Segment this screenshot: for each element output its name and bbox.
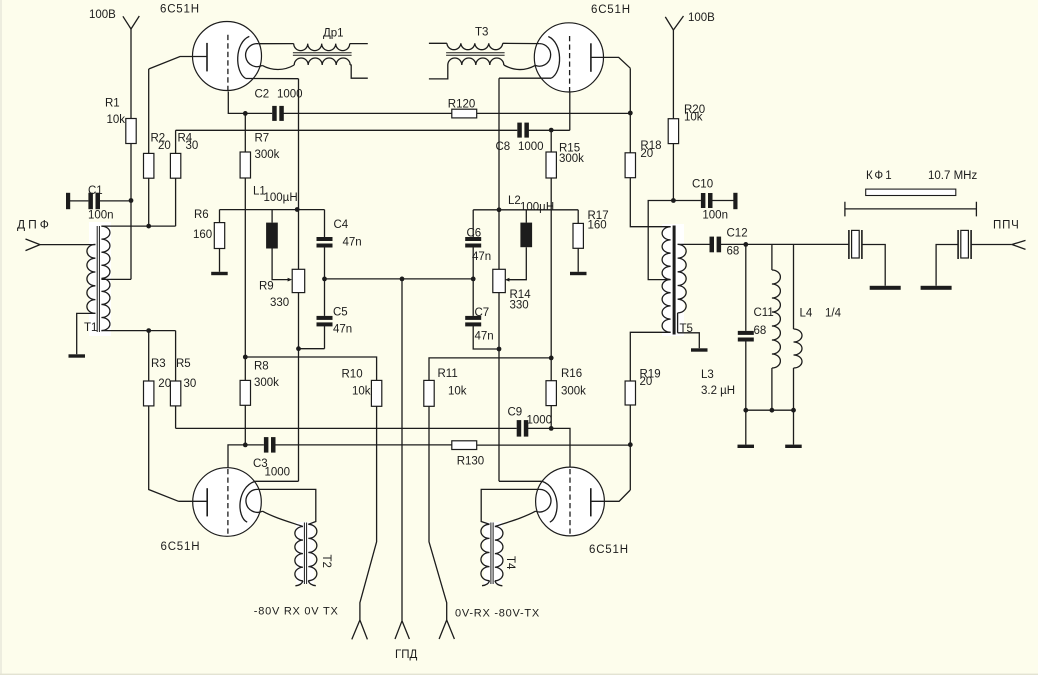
- svg-text:0V-RX -80V-TX: 0V-RX -80V-TX: [455, 608, 540, 620]
- inductor L3: [772, 270, 781, 368]
- capacitor C1 terminal bar: [66, 193, 70, 209]
- ground T1 ground: [69, 354, 86, 357]
- svg-text:R8: R8: [254, 361, 269, 373]
- node U2 anode / R18 node: [628, 111, 633, 116]
- resistor R3: [144, 381, 154, 406]
- wire U4 heater top lead: [481, 489, 539, 524]
- resistor R9: [292, 269, 305, 292]
- wire Др1 bottom-right lead: [350, 65, 368, 78]
- capacitor C1: [88, 193, 100, 210]
- svg-text:47n: 47n: [333, 323, 352, 335]
- wire cathode column upper left: [298, 79, 300, 270]
- svg-text:T1: T1: [84, 322, 97, 334]
- svg-text:C10: C10: [692, 179, 713, 191]
- capacitor C3: [264, 437, 276, 453]
- wire R17 bottom lead: [577, 248, 579, 271]
- svg-text:C9: C9: [508, 407, 523, 419]
- node GPD node: [400, 277, 405, 282]
- wire GPD right (from R11): [429, 406, 447, 620]
- node C8 / R15 node: [549, 128, 554, 133]
- wire R16 bottom: [550, 406, 552, 429]
- wire R9-C5 link: [299, 348, 325, 350]
- wire T1 secondary bottom line: [101, 330, 175, 332]
- svg-text:-80V RX 0V TX: -80V RX 0V TX: [254, 606, 339, 618]
- wire U1 anode column: [148, 69, 150, 153]
- tube U3 grid (dashed): [227, 469, 229, 536]
- capacitor C7: [465, 316, 481, 327]
- capacitor C2: [272, 106, 284, 121]
- wire C12 to crystal line: [721, 243, 849, 245]
- svg-text:R9: R9: [259, 281, 274, 293]
- wire U1 cathode lead: [246, 78, 299, 80]
- svg-text:10k: 10k: [352, 385, 371, 397]
- tube U2 anode bar: [590, 43, 592, 72]
- svg-text:300k: 300k: [561, 386, 586, 398]
- wire U2 anode to R18 to T5 top: [630, 68, 670, 227]
- svg-text:160: 160: [193, 229, 212, 241]
- node filter gnd node b: [770, 408, 775, 413]
- svg-text:R11: R11: [438, 368, 458, 380]
- node R3/T1 node: [146, 328, 151, 333]
- transformer T4 white band: [484, 522, 502, 584]
- wire cathode column upper right: [498, 78, 500, 269]
- wire C1 left: [70, 200, 89, 202]
- svg-text:C11: C11: [754, 307, 774, 319]
- node tank mid left: [322, 277, 327, 282]
- svg-text:R3: R3: [151, 358, 166, 370]
- GPD left fork: [352, 620, 368, 639]
- wire T3 top-right lead to U2 heater: [503, 42, 540, 44]
- svg-text:C2: C2: [255, 88, 270, 100]
- wire T3 bottom-left lead: [429, 65, 448, 79]
- R14 wiper arrow: [505, 278, 510, 282]
- wire left tank node line: [220, 209, 325, 211]
- tube U4 6С51Н envelope: [536, 467, 605, 536]
- wire L3 top lead: [771, 244, 773, 270]
- wire T5 right winding tail: [677, 313, 679, 333]
- wire grid bus upper: [176, 129, 518, 131]
- svg-text:20: 20: [640, 148, 653, 160]
- node R8/C3 node: [243, 443, 248, 448]
- crystal X2: [958, 230, 971, 259]
- wire C11 column: [745, 244, 747, 444]
- resistor R2: [144, 153, 154, 178]
- svg-text:20: 20: [158, 140, 171, 152]
- svg-text:3.2 µH: 3.2 µH: [701, 385, 735, 397]
- wire U3 cathode lead: [255, 480, 298, 482]
- transformer T3 bottom winding: [448, 58, 504, 65]
- svg-text:47n: 47n: [475, 331, 494, 343]
- transformer T3 core: [446, 53, 505, 55]
- wire L4 bottom lead: [793, 368, 795, 445]
- wire C10 left: [673, 200, 701, 202]
- svg-text:68: 68: [727, 246, 740, 258]
- wire L4 top lead: [793, 244, 795, 329]
- input fork ДПФ: [26, 239, 41, 251]
- svg-text:R7: R7: [255, 133, 270, 145]
- ground R17 ground: [570, 272, 587, 275]
- ground R6 ground: [211, 272, 228, 275]
- wire L1 bottom to R9 wiper: [272, 249, 288, 280]
- ground L4 ground: [785, 445, 802, 448]
- filter bracket: [845, 202, 977, 217]
- transformer T1 core: [97, 226, 99, 332]
- R9 wiper arrow: [288, 278, 293, 282]
- wire C5 bottom: [324, 325, 326, 348]
- resistor R13: [452, 441, 477, 450]
- resistor R19: [625, 381, 635, 405]
- svg-text:1000: 1000: [527, 415, 553, 427]
- choke Др1 bottom winding: [294, 58, 350, 65]
- tube U3 heater arc: [246, 489, 263, 512]
- svg-text:10.7 MHz: 10.7 MHz: [928, 170, 977, 182]
- svg-text:ДПФ: ДПФ: [17, 218, 52, 232]
- tube U2 grid (dashed): [569, 36, 571, 93]
- GPD right fork: [439, 620, 454, 639]
- svg-text:L4: L4: [800, 308, 813, 320]
- svg-text:C12: C12: [727, 228, 748, 240]
- wire right tank node line: [473, 209, 578, 211]
- node R7/R8 node: [243, 355, 248, 360]
- node R20 / C10 node: [671, 198, 676, 203]
- node cathode node right: [497, 207, 502, 212]
- transformer T2 core: [304, 523, 306, 585]
- inductor L4: [794, 329, 803, 368]
- svg-text:300k: 300k: [255, 149, 280, 161]
- output fork ППЧ: [1012, 240, 1026, 249]
- transformer T1 primary winding: [87, 244, 96, 313]
- tube U4 anode bar: [590, 488, 592, 516]
- transformer T5 right winding: [678, 244, 687, 313]
- svg-text:КФ1: КФ1: [866, 170, 894, 182]
- transformer T2 left winding: [295, 527, 303, 581]
- wire U1 grid lead down to C2 node: [228, 92, 245, 114]
- wire R7 to R8: [244, 178, 246, 380]
- transformer T4 right winding flare: [495, 581, 503, 586]
- wire C2 line left: [245, 112, 272, 114]
- svg-text:47n: 47n: [472, 251, 491, 263]
- wire 100V right rail lower: [672, 144, 674, 201]
- ground X1 ground: [870, 286, 901, 290]
- resistor R1: [126, 119, 136, 144]
- ground C11 ground: [738, 445, 755, 448]
- wire 100V left rail lower: [130, 144, 132, 280]
- wire R15 column: [550, 130, 552, 381]
- wire R8-R10 link: [245, 357, 376, 380]
- wire output lead: [971, 244, 1012, 246]
- wire Др1 top-right lead: [350, 43, 368, 45]
- filter body КФ1: [866, 189, 956, 195]
- wire U2 grid lead down to bus: [569, 93, 571, 131]
- wire R19 to U4 anode: [629, 405, 631, 490]
- svg-text:10k: 10k: [107, 114, 126, 126]
- wire U1 heater bottom lead: [262, 65, 294, 69]
- wire R2 to T1: [148, 178, 150, 226]
- wire R6 top lead: [219, 210, 221, 223]
- node C1 / 100V rail: [129, 198, 134, 203]
- wire T1 tap: [101, 278, 131, 280]
- wire L2 bottom to R14 wiper: [509, 247, 527, 280]
- svg-text:R16: R16: [561, 368, 582, 380]
- tube U1 heater arc: [246, 44, 263, 67]
- svg-text:T3: T3: [475, 27, 488, 39]
- svg-text:C6: C6: [467, 228, 482, 240]
- wire R13 to U4 anode column: [477, 444, 631, 446]
- svg-text:10k: 10k: [684, 112, 703, 124]
- wire U3 heater top lead: [258, 489, 315, 524]
- svg-text:L3: L3: [701, 369, 714, 381]
- wire GPD left (from R10): [360, 406, 377, 620]
- power symbol 100V right: [665, 16, 683, 30]
- wire U3 heater bottom lead: [263, 511, 303, 526]
- transformer T4 right winding: [495, 527, 503, 581]
- wire filter bottom link: [746, 409, 794, 411]
- resistor R11: [424, 380, 434, 406]
- wire R17 top lead: [577, 210, 579, 224]
- resistor R4: [170, 153, 180, 178]
- wire 100V left rail upper: [130, 29, 132, 119]
- svg-text:C4: C4: [334, 219, 349, 231]
- svg-text:C7: C7: [475, 307, 490, 319]
- wire R8 bottom: [244, 405, 246, 445]
- resistor R14: [493, 269, 506, 292]
- wire R9 bottom: [298, 293, 300, 482]
- transformer T2 right winding flare: [308, 581, 316, 586]
- wire 100V right rail upper: [672, 30, 674, 119]
- resistor R5: [170, 381, 180, 406]
- svg-text:ППЧ: ППЧ: [993, 220, 1020, 232]
- wire U3 anode lead: [179, 500, 208, 502]
- svg-text:1000: 1000: [518, 141, 544, 153]
- node R14/C7 node: [497, 347, 502, 352]
- power symbol 100V left: [123, 16, 139, 29]
- svg-text:T2: T2: [320, 555, 332, 568]
- svg-text:100µH: 100µH: [264, 192, 298, 204]
- crystal X1: [849, 230, 862, 259]
- wire C8 to U2 grid corner: [528, 129, 569, 131]
- transformer T4 left winding: [481, 524, 490, 580]
- tube U4 grid (dashed): [569, 469, 571, 535]
- wire T1 primary bottom lead: [77, 313, 96, 354]
- wire U2 heater bottom lead from T3: [504, 65, 535, 69]
- node C11 node: [743, 242, 748, 247]
- tube U3 6С51Н envelope: [193, 468, 262, 537]
- wire L2 top lead: [525, 210, 527, 223]
- wire R11-R16 link: [429, 358, 551, 381]
- svg-text:1/4: 1/4: [825, 308, 842, 320]
- resistor R17: [573, 223, 583, 248]
- wire T1 primary top lead: [40, 244, 95, 246]
- node R2/T1 node: [146, 224, 151, 229]
- transformer T5 core: [673, 226, 676, 335]
- node R9/C5 node: [296, 346, 301, 351]
- node filter gnd node a: [743, 408, 748, 413]
- resistor R16: [546, 381, 556, 406]
- svg-text:68: 68: [754, 325, 767, 337]
- wire U4 anode lead: [591, 490, 631, 501]
- svg-text:300k: 300k: [559, 153, 584, 165]
- choke Др1 core: [293, 53, 352, 55]
- capacitor C5: [317, 316, 333, 327]
- wire U2 anode lead: [591, 57, 630, 68]
- svg-text:1000: 1000: [265, 466, 291, 478]
- wire C10 right: [712, 200, 734, 202]
- tube U2 cathode arc: [548, 37, 559, 79]
- wire X2 left lead: [936, 245, 958, 286]
- svg-text:6С51Н: 6С51Н: [160, 4, 200, 16]
- node R15/R16 node: [549, 356, 554, 361]
- svg-text:160: 160: [588, 220, 607, 232]
- svg-text:6С51Н: 6С51Н: [589, 544, 629, 556]
- svg-text:47n: 47n: [343, 236, 362, 248]
- wire X1 right lead: [862, 245, 885, 286]
- tube U2 heater arc: [535, 44, 550, 67]
- transformer T1 secondary winding: [101, 226, 110, 330]
- inductor L1: [266, 223, 278, 249]
- svg-text:T4: T4: [504, 556, 516, 570]
- svg-text:100µH: 100µH: [520, 201, 554, 213]
- wire C9 to U4 grid corner: [528, 428, 570, 467]
- capacitor C8: [517, 123, 529, 138]
- node U1 grid / R7 node: [243, 111, 248, 116]
- transformer T1 white band: [89, 222, 111, 336]
- tube U1 grid (dashed): [227, 35, 229, 92]
- wire R5 column: [175, 331, 177, 429]
- capacitor C10 terminal bar: [733, 193, 737, 209]
- tube U1 cathode arc: [238, 36, 250, 78]
- resistor R6: [214, 223, 224, 249]
- svg-text:30: 30: [186, 140, 199, 152]
- transformer T2 white band: [296, 522, 314, 584]
- resistor R20: [668, 119, 678, 144]
- wire R14 bottom: [498, 293, 500, 482]
- svg-text:330: 330: [510, 299, 529, 311]
- transformer T2 right winding: [308, 524, 317, 580]
- wire C6 top lead: [472, 210, 474, 237]
- wire C2 to R12: [283, 112, 452, 114]
- choke Др1 top winding: [294, 44, 350, 51]
- ground T5 ground: [691, 348, 708, 351]
- svg-text:330: 330: [270, 297, 289, 309]
- wire U1 anode lead: [149, 57, 207, 70]
- tube U3 anode bar: [206, 488, 208, 516]
- transformer T5 left winding: [662, 227, 671, 333]
- svg-text:20: 20: [158, 378, 171, 390]
- capacitor C10: [701, 193, 713, 208]
- capacitor C11: [738, 331, 754, 342]
- svg-text:ГПД: ГПД: [395, 649, 417, 661]
- wire C1 right: [100, 200, 132, 202]
- svg-text:100В: 100В: [89, 9, 116, 21]
- svg-text:Др1: Др1: [323, 28, 344, 40]
- wire L3 bottom lead: [771, 368, 773, 410]
- wire R4 column: [175, 130, 177, 226]
- tube U2 6С51Н envelope: [534, 23, 603, 92]
- svg-text:C8: C8: [496, 141, 511, 153]
- svg-text:30: 30: [184, 378, 197, 390]
- wire central oscillator line: [325, 278, 474, 280]
- resistor R15: [546, 152, 556, 178]
- wire U2 cathode lead: [499, 77, 551, 79]
- svg-text:R5: R5: [176, 358, 191, 370]
- wire R6 bottom lead: [219, 249, 221, 272]
- capacitor C12: [710, 237, 722, 253]
- tube U3 cathode arc: [240, 481, 255, 522]
- wire C7 bottom: [473, 325, 499, 349]
- svg-text:300k: 300k: [254, 377, 279, 389]
- svg-text:6С51Н: 6С51Н: [161, 541, 201, 553]
- wire grid bus lower: [176, 427, 517, 429]
- tube U4 heater arc: [536, 489, 551, 512]
- svg-text:R120: R120: [448, 99, 476, 111]
- GPD middle fork: [395, 621, 409, 639]
- resistor R7: [240, 152, 250, 178]
- wire L1 top lead: [271, 210, 273, 223]
- node tank mid right: [471, 277, 476, 282]
- wire R12 to U2 anode line: [477, 112, 631, 114]
- node filter gnd node c: [791, 408, 796, 413]
- resistor R8: [240, 380, 250, 405]
- svg-text:100n: 100n: [702, 209, 728, 221]
- resistor R12: [452, 109, 477, 118]
- transformer T4 left winding flare: [482, 581, 490, 586]
- svg-text:100n: 100n: [88, 209, 114, 221]
- wire U3 grid lead: [228, 445, 264, 468]
- wire C10 node to T5 tap: [648, 201, 673, 280]
- wire T5 right bottom lead: [678, 333, 700, 349]
- wire C3 to R13: [275, 444, 452, 446]
- tube U1 anode bar: [206, 43, 208, 72]
- transformer T5 white band: [662, 224, 684, 336]
- wire R3 column: [149, 331, 179, 502]
- wire T5 left bottom to R19: [630, 332, 670, 381]
- transformer T2 left winding flare: [295, 581, 303, 586]
- wire U4 heater bottom lead: [495, 511, 536, 526]
- svg-text:R6: R6: [194, 209, 209, 221]
- capacitor C9: [517, 420, 529, 437]
- node C9/R16 node: [549, 426, 554, 431]
- wire U1 heater top lead: [258, 43, 294, 45]
- wire C4 top lead: [324, 210, 326, 237]
- wire T5 right top lead: [678, 243, 710, 245]
- wire T1 secondary top line: [101, 225, 175, 227]
- tube U1 6С51Н envelope: [193, 22, 262, 91]
- capacitor C4: [317, 237, 333, 248]
- tube U4 cathode arc: [542, 481, 557, 522]
- svg-text:20: 20: [640, 376, 653, 388]
- node R19/R13 node: [628, 442, 633, 447]
- wire U4 cathode lead: [499, 480, 542, 482]
- svg-text:L2: L2: [508, 195, 521, 207]
- svg-text:C1: C1: [88, 185, 103, 197]
- svg-text:R10: R10: [342, 369, 363, 381]
- wire C6-C7 mid: [472, 247, 474, 316]
- transformer T4 core: [491, 523, 493, 585]
- node cathode node left: [295, 207, 300, 212]
- svg-text:R130: R130: [457, 455, 485, 467]
- svg-text:10k: 10k: [448, 386, 467, 398]
- resistor R10: [371, 380, 381, 406]
- svg-text:C5: C5: [333, 306, 348, 318]
- wire GPD middle: [401, 279, 403, 621]
- wire C4-C5 mid: [324, 247, 326, 316]
- wire R7 column: [244, 113, 246, 152]
- ground X2 ground: [921, 286, 952, 290]
- svg-text:100В: 100В: [688, 12, 715, 24]
- wire T3 top-left lead: [429, 42, 447, 44]
- capacitor C6: [465, 237, 481, 248]
- transformer T3 top winding: [447, 43, 503, 49]
